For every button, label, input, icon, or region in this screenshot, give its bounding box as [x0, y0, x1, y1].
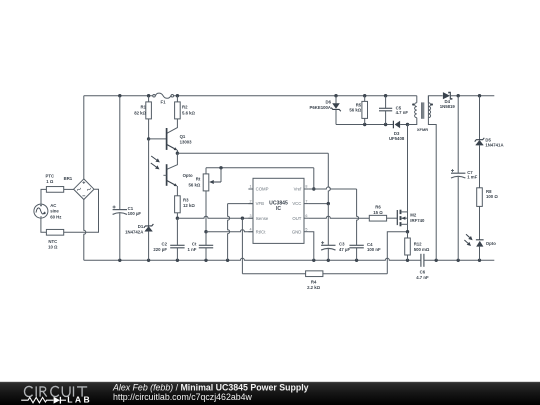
node dot opto LED cathode-bottom: [478, 259, 481, 262]
wire Isense pin line: [177, 216, 253, 218]
Rt wiper arrow: [220, 168, 222, 182]
svg-text:R5: R5: [356, 102, 362, 107]
svg-text:NTC: NTC: [48, 239, 57, 244]
svg-text:100 Ω: 100 Ω: [486, 194, 498, 199]
opto LED arrow 2: [464, 240, 468, 243]
svg-text:Opto: Opto: [183, 173, 193, 178]
wire BR1 plus output vertical: [83, 96, 85, 179]
op-amp U1 UC3845 IC body: [253, 178, 304, 243]
capacitor Ct 1nF: [205, 232, 207, 246]
wire C3 column vertical: [327, 204, 329, 246]
wire top rail left (rectified + rail): [84, 95, 153, 97]
svg-text:Rt/Ct: Rt/Ct: [256, 229, 267, 234]
svg-text:47 µF: 47 µF: [339, 247, 350, 252]
wire D1 anode to ground rail: [148, 231, 150, 260]
wire Rt bottom to RtCt node: [205, 191, 207, 232]
resistor R12 500mOhm: [405, 238, 411, 255]
svg-text:8: 8: [305, 185, 307, 189]
wire Q1 base horizontal: [149, 138, 167, 140]
node dot R3/C2/Isense: [176, 217, 179, 220]
svg-text:12 kΩ: 12 kΩ: [183, 203, 195, 208]
wire D3 anode to drain node: [400, 124, 407, 126]
node dot R1 top: [147, 94, 150, 97]
TVS diode D6 P6KE100A: [332, 103, 340, 109]
zener diode D1 1N4742A: [144, 224, 154, 228]
svg-text:XFMR: XFMR: [417, 127, 428, 132]
wire secondary ground rail: [424, 259, 494, 261]
wire Vref pin row to C4 column: [309, 187, 357, 189]
capacitor C6 4.7nF (Y-cap in ground rail): [420, 254, 422, 267]
wire top rail right of fuse to transformer primary: [174, 95, 417, 97]
svg-text:C3: C3: [339, 242, 345, 247]
wire VFB pin line: [228, 203, 253, 205]
svg-text:R1: R1: [141, 105, 147, 110]
wire M2 drain vertical: [407, 125, 409, 212]
node dot C1 top: [118, 94, 121, 97]
node dot C3 bottom: [327, 259, 330, 262]
wire primary bottom lead: [408, 118, 417, 125]
wire R3 bottom to sense node: [176, 213, 178, 218]
node dot IC GND: [312, 259, 315, 262]
node dot Isense / R4 tap: [241, 217, 244, 220]
bridge rectifier BR1: [74, 179, 94, 200]
node dot Vref pin node: [312, 187, 315, 190]
wire R8 to opto LED: [479, 206, 481, 239]
wire PTC left to AC source: [41, 189, 46, 204]
capacitor C5 4.7nF: [385, 96, 387, 109]
pin 7 (VCC) stub: [304, 203, 309, 205]
XFMR core: [421, 102, 423, 118]
wire VCC feed rail from Q1 emitter: [177, 152, 328, 154]
wire secondary bottom lead to ground: [428, 118, 436, 261]
svg-text:15 Ω: 15 Ω: [373, 210, 383, 215]
svg-text:http://circuitlab.com/c7qczj46: http://circuitlab.com/c7qczj462ab4w: [113, 392, 253, 402]
pin 2 (VFB) stub: [248, 203, 253, 205]
XFMR primary phase dot: [412, 103, 414, 105]
wire BR1 minus vertical to ground rail: [84, 200, 86, 261]
wire GND pin to ground: [309, 232, 314, 261]
svg-text:2.2 kΩ: 2.2 kΩ: [307, 285, 321, 290]
CircuitLab logo resistor-diode glyph: [21, 397, 53, 402]
capacitor C3 47uF: [321, 244, 335, 246]
transistor M2 IRF740 N-MOSFET: [397, 210, 407, 227]
wire Q1 emitter down to node: [176, 150, 178, 153]
wire opto LED to ground rail: [479, 247, 481, 261]
svg-text:1 Ω: 1 Ω: [46, 179, 54, 184]
AC source V1 sine 60Hz: [34, 204, 48, 218]
wire VFB to ground vertical: [228, 204, 230, 261]
wire R4 loop left segment: [242, 273, 305, 275]
schottky diode D4 1N5819: [443, 92, 450, 99]
wire NTC right to bridge AC2 corner: [64, 189, 99, 232]
svg-text:VFB: VFB: [256, 201, 264, 206]
fuse F1: [153, 93, 174, 98]
node dot C4 bottom: [355, 259, 358, 262]
resistor R1 82k: [148, 96, 150, 102]
svg-text:100 nF: 100 nF: [367, 247, 381, 252]
node dot drain / primary return: [406, 123, 409, 126]
zener diode D5 1N4741A: [475, 138, 485, 142]
XFMR secondary phase dot: [431, 103, 433, 105]
wire output rail after D4: [451, 95, 495, 97]
capacitor C7 1mF: [457, 96, 459, 174]
wire D5 cathode from output rail: [479, 96, 481, 140]
wire M2 source to node: [407, 224, 409, 231]
wire VCC pin row: [309, 203, 329, 205]
opto LED Opto: [476, 239, 484, 241]
wire opto emitter to R3: [176, 186, 178, 196]
svg-text:Q1: Q1: [180, 134, 186, 139]
svg-text:Ct: Ct: [192, 242, 197, 247]
svg-text:R12: R12: [414, 241, 422, 246]
node dot M2 source / R12: [406, 230, 409, 233]
CircuitLab logo CIRCUIT text: [24, 386, 87, 396]
opto base stub: [163, 174, 166, 176]
wire AC bottom to NTC: [41, 218, 47, 232]
svg-text:AC: AC: [50, 203, 56, 208]
wire Vref link down to pin8 node: [313, 168, 315, 189]
opto emitter with arrow: [167, 180, 175, 184]
svg-text:5.6 kΩ: 5.6 kΩ: [182, 110, 196, 115]
node dot D5 top: [478, 94, 481, 97]
wire R2 bottom to Q1 collector: [167, 119, 178, 133]
svg-text:500 mΩ: 500 mΩ: [414, 247, 430, 252]
wire C4 column vertical: [357, 189, 359, 245]
wire OUT pin row to R6: [309, 216, 370, 218]
node dot C7 bottom: [457, 259, 460, 262]
pin 4 (Rt/Ct) stub: [248, 231, 253, 233]
wire Isense down to R4 loop: [241, 218, 243, 274]
node dot Ct bottom: [204, 259, 207, 262]
node dot D1 bottom: [147, 259, 150, 262]
Q1 emitter with arrow: [167, 144, 175, 148]
capacitor C4 100nF: [349, 244, 363, 246]
wire R4 right vertical to M2 source: [387, 232, 407, 274]
resistor R3 12k: [175, 196, 181, 213]
wire base node down to D1: [148, 139, 150, 226]
svg-text:4.7 nF: 4.7 nF: [396, 110, 409, 115]
resistor R2 5.6k: [176, 96, 178, 102]
svg-text:6: 6: [305, 214, 307, 218]
svg-text:C2: C2: [162, 241, 168, 246]
node dot D6 top: [334, 94, 337, 97]
resistor R8 100 Ohm: [477, 188, 483, 207]
svg-text:3: 3: [250, 214, 252, 218]
svg-text:IRF740: IRF740: [410, 218, 425, 223]
resistor R5 56k: [364, 96, 366, 102]
svg-text:1 nF: 1 nF: [188, 247, 197, 252]
node dot VCC / C3: [327, 202, 330, 205]
pin 6 (OUT) stub: [304, 217, 309, 219]
wire D6 cathode from top rail: [335, 96, 337, 104]
opto light arrow 2: [151, 163, 156, 167]
pin 3 (Isense) stub: [248, 217, 253, 219]
node dot XFMR secondary return: [435, 259, 438, 262]
opto LED arrow 1: [466, 234, 470, 237]
resistor PTC 1 Ohm: [46, 187, 63, 193]
svg-text:R2: R2: [182, 105, 188, 110]
transistor Q1 13003 NPN: [166, 128, 168, 150]
svg-text:13003: 13003: [180, 140, 193, 145]
svg-text:sine: sine: [50, 209, 59, 214]
node dot R5 bottom: [363, 123, 366, 126]
wire snubber bottom rail: [336, 124, 393, 126]
node dot C2 bottom: [176, 259, 179, 262]
svg-text:Vref: Vref: [294, 187, 303, 192]
transformer XFMR primary winding: [416, 96, 418, 103]
wire RtCt pin line: [206, 230, 253, 232]
wire D6 anode down to snubber rail: [335, 110, 337, 125]
svg-text:R3: R3: [183, 198, 189, 203]
wire bottom ground rail: [84, 258, 421, 260]
svg-text:1N4742A: 1N4742A: [125, 229, 143, 234]
node dot C5 bottom: [384, 123, 387, 126]
wire source node to R12: [407, 232, 409, 238]
diode D3 UF5408: [392, 121, 394, 129]
resistor R6 15 Ohm: [369, 215, 386, 221]
node dot C5 top: [384, 94, 387, 97]
pin 5 (GND) stub: [304, 231, 309, 233]
rheostat Rt 56k: [205, 168, 207, 174]
svg-text:D3: D3: [394, 131, 400, 136]
capacitor C2 220pF: [176, 218, 178, 245]
wire PTC right to bridge: [64, 188, 74, 190]
svg-text:R8: R8: [486, 189, 492, 194]
svg-text:4: 4: [250, 227, 252, 231]
svg-text:10 Ω: 10 Ω: [48, 244, 58, 249]
node dot VFB ground: [226, 259, 229, 262]
svg-text:COMP: COMP: [256, 187, 269, 192]
node dot RtCt node: [204, 230, 207, 233]
svg-text:1N4741A: 1N4741A: [485, 142, 503, 147]
svg-text:1: 1: [250, 185, 252, 189]
svg-text:100 µF: 100 µF: [128, 211, 142, 216]
node dot C1 bottom: [118, 259, 121, 262]
svg-text:1N5819: 1N5819: [440, 104, 456, 109]
svg-text:1 mF: 1 mF: [467, 175, 477, 180]
svg-text:IC: IC: [276, 206, 281, 212]
svg-text:2: 2: [250, 199, 252, 203]
svg-text:VCC: VCC: [292, 201, 301, 206]
svg-text:M2: M2: [410, 212, 417, 217]
wire Rt top to Vref link: [206, 167, 314, 169]
node dot Q1 base / D1 node: [147, 137, 150, 140]
svg-text:P6KE100A: P6KE100A: [310, 105, 332, 110]
svg-text:D6: D6: [326, 100, 332, 105]
svg-text:Opto: Opto: [486, 241, 496, 246]
node dot R12 bottom: [406, 259, 409, 262]
svg-text:4.7 nF: 4.7 nF: [416, 275, 429, 280]
svg-text:PTC: PTC: [45, 174, 54, 179]
pin 8 (Vref) stub: [304, 188, 309, 190]
wire R4 loop right segment: [323, 273, 387, 275]
svg-text:60 Hz: 60 Hz: [50, 214, 61, 219]
node dot C7 top: [457, 94, 460, 97]
svg-text:BR1: BR1: [64, 176, 73, 181]
svg-text:GND: GND: [292, 229, 302, 234]
svg-text:Isense: Isense: [256, 216, 269, 221]
opto light arrow 1: [151, 156, 156, 160]
opto phototransistor Opto: [166, 164, 168, 186]
node dot R5 top: [363, 94, 366, 97]
node dot Rt wiper tap: [219, 166, 222, 169]
svg-text:Rt: Rt: [196, 177, 201, 182]
svg-text:56 kΩ: 56 kΩ: [188, 182, 200, 187]
transformer XFMR secondary winding: [427, 96, 429, 103]
svg-text:R6: R6: [375, 204, 381, 209]
svg-text:220 pF: 220 pF: [153, 247, 167, 252]
wire opto collector from emitter node: [167, 153, 178, 169]
svg-text:UF5408: UF5408: [389, 136, 405, 141]
svg-text:7: 7: [305, 199, 307, 203]
wire R12 bottom to ground rail: [407, 255, 409, 260]
resistor R4 2.2k: [306, 271, 323, 277]
svg-text:OUT: OUT: [292, 216, 301, 221]
svg-text:C1: C1: [128, 206, 134, 211]
node dot Q1 emitter / VCC feed: [176, 152, 179, 155]
capacitor C1 100uF: [119, 96, 121, 210]
svg-text:5: 5: [305, 227, 307, 231]
node dot R2 top: [176, 94, 179, 97]
svg-text:F1: F1: [160, 99, 166, 104]
svg-text:D1: D1: [138, 224, 144, 229]
pin 1 (COMP) stub: [248, 188, 253, 190]
wire D5 anode to R8: [479, 145, 481, 187]
svg-text:R4: R4: [311, 280, 317, 285]
resistor NTC 10 Ohm: [46, 229, 63, 235]
wire VCC feed down to VCC pin node: [328, 153, 330, 203]
svg-text:82 kΩ: 82 kΩ: [134, 110, 146, 115]
wire R6 to M2 gate: [387, 217, 398, 219]
wire secondary top lead to D4: [428, 96, 442, 118]
svg-text:LAB: LAB: [67, 395, 92, 405]
svg-text:56 kΩ: 56 kΩ: [349, 108, 361, 113]
